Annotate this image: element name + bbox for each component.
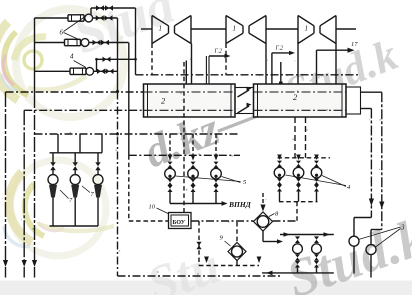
- svg-text:ВПНД: ВПНД: [228, 200, 252, 209]
- leader 7a: [60, 190, 69, 199]
- wire drain valve drop: [198, 221, 200, 266]
- drum D2 waterline lower: [254, 109, 347, 111]
- valve heater5-3 d: [214, 185, 219, 192]
- ejector E3: [94, 185, 102, 198]
- wire heater5-3 riser: [215, 134, 217, 157]
- arrow G2-2: [289, 51, 295, 55]
- wire drop leg 1 end: [5, 267, 7, 278]
- wire extraction G2-2 drop: [271, 53, 273, 97]
- wire pump3 top: [97, 153, 99, 163]
- wire heater5-2 riser: [192, 134, 194, 157]
- leader 4b1: [286, 175, 347, 186]
- wire heater5 bottom manifold: [170, 203, 219, 205]
- wire steam header dashed: [136, 74, 361, 76]
- wire extraction G2-1 drop: [205, 56, 207, 100]
- wire pump2 drop: [74, 198, 76, 227]
- wire steam stub left: [141, 28, 152, 30]
- wire BOU in dashed: [129, 220, 169, 222]
- wire to pump P3a: [353, 218, 355, 237]
- valve top-a: [96, 5, 104, 10]
- leader 10: [157, 208, 169, 214]
- wire row2 from tank: [35, 42, 65, 44]
- valve brh1 b: [295, 261, 300, 268]
- pump P6a: [85, 14, 93, 22]
- node header cross: [116, 133, 119, 136]
- heater H4-3: [311, 167, 322, 178]
- wire extraction G2-1 stub: [209, 55, 227, 57]
- arrow VPND: [219, 203, 225, 205]
- valve top-b: [105, 5, 113, 10]
- node sparger 2: [270, 94, 274, 99]
- ejector E2: [71, 185, 79, 198]
- wire T3 right leg: [335, 44, 337, 85]
- wire BOU out dashed: [191, 220, 254, 222]
- valve row3-b: [106, 69, 114, 74]
- wire pump2 mid: [74, 170, 76, 175]
- wire C8 feed: [262, 193, 264, 206]
- wire pump2 top: [74, 153, 76, 163]
- valve heater4-1 b: [277, 178, 282, 185]
- wire extraction 17: [317, 49, 352, 51]
- turbine T3: [298, 16, 336, 44]
- valve bypass: [103, 57, 111, 62]
- leader 5a: [176, 176, 241, 182]
- valve brh1 top: [295, 236, 300, 243]
- wire C8 drain out: [263, 241, 279, 243]
- ejector E1: [49, 185, 57, 198]
- wire drop leg 2: [23, 110, 25, 260]
- node H4-1 drain: [278, 174, 281, 177]
- wire br top line: [280, 234, 334, 236]
- valve heater4-1 c: [277, 185, 282, 192]
- wire row1: [92, 17, 117, 19]
- arrow br top1: [284, 232, 291, 237]
- node top corner: [134, 58, 136, 60]
- wire heater4-3 drop: [316, 191, 318, 201]
- wire condensate line 1: [6, 91, 144, 93]
- arrow downcomer outer: [379, 202, 384, 210]
- wire downcomer outer elbow: [371, 229, 382, 231]
- drum D1 shell: [144, 84, 236, 117]
- valve heater5-2 d: [191, 185, 196, 192]
- wire pump3 drop: [97, 198, 99, 227]
- wire downcomer outer top: [361, 91, 382, 93]
- node H4-2 drain: [297, 174, 300, 177]
- wire condensate line 2: [24, 109, 143, 111]
- arrow heater4-1 in: [277, 155, 282, 161]
- pump P7-2: [70, 175, 80, 185]
- svg-text:3: 3: [400, 224, 405, 232]
- leader 6b: [64, 33, 82, 41]
- drum D2 left cap: [257, 84, 259, 117]
- drum D2 shell: [254, 84, 347, 117]
- wire br bottom line: [262, 272, 334, 274]
- wire P3b out: [370, 255, 372, 278]
- valve heater5-2 b: [191, 162, 196, 168]
- valve brh2 top: [314, 236, 319, 243]
- wire extraction G2-2 stub: [272, 52, 292, 54]
- svg-text:Г.2: Г.2: [214, 49, 222, 55]
- wire downcomer inner top: [361, 108, 372, 110]
- svg-text:БОУ: БОУ: [173, 220, 186, 226]
- arrow heater5-3 in: [214, 155, 219, 161]
- arrow G2-1: [225, 54, 231, 58]
- leader 7b: [82, 186, 90, 193]
- wire heater4-2 drop: [298, 191, 300, 201]
- wire heater header: [129, 154, 240, 156]
- valve heater4-2 c: [296, 185, 301, 192]
- wire up to heater4: [296, 202, 298, 221]
- wire row3 riser: [96, 59, 98, 71]
- arrow heater5-1 in: [168, 155, 173, 161]
- arrow drain bottom: [204, 257, 209, 264]
- wire small drop: [280, 62, 282, 84]
- pump P6b: [81, 39, 89, 47]
- pump motor M2: [65, 39, 81, 45]
- valve pump1: [50, 162, 55, 170]
- arrow heater4-2 in: [296, 155, 301, 161]
- wire to pump P3b: [370, 230, 372, 245]
- wire bottom return header: [118, 275, 282, 277]
- wire heater4-1 drop: [279, 191, 281, 201]
- valve row2-a: [93, 40, 101, 45]
- wire heater4 top dashed: [278, 157, 331, 159]
- leader 9: [225, 241, 231, 246]
- heater BR1: [293, 244, 303, 254]
- drum D2 right cap: [341, 84, 343, 117]
- drum D1 waterline upper: [144, 91, 236, 93]
- wire bypass header: [97, 58, 136, 60]
- svg-text:1: 1: [159, 25, 163, 33]
- leader 3a: [359, 227, 401, 240]
- watermark stamp bottom-left: [4, 160, 114, 256]
- wire pump3 mid: [97, 170, 99, 175]
- cooler C8: [254, 212, 273, 231]
- leader 5b: [222, 177, 241, 183]
- wire C9 drain: [236, 261, 238, 266]
- wire pump1 drop: [52, 198, 54, 227]
- arrow connector lower: [238, 106, 250, 113]
- leader 6a: [64, 17, 85, 32]
- valve heater4-1 a: [277, 161, 282, 167]
- wire main vertical A: [117, 18, 119, 92]
- wire riser r2: [79, 134, 81, 153]
- cooler C9: [228, 243, 246, 261]
- pump motor M1: [68, 15, 84, 21]
- node sparger 3: [279, 82, 283, 86]
- wire T2 right leg: [265, 44, 267, 85]
- valve heater5-2 c: [191, 179, 196, 186]
- wire brh1 drop: [297, 268, 299, 273]
- valve heater4-3 b: [314, 178, 319, 185]
- arrow br top2: [324, 232, 331, 237]
- valve drain: [196, 242, 201, 250]
- leader 3b: [376, 229, 401, 248]
- wire top header: [91, 7, 136, 9]
- drum connector shell: [235, 88, 254, 114]
- svg-text:4: 4: [70, 53, 74, 61]
- wire C8 drain: [262, 231, 264, 242]
- heater H4-2: [293, 167, 304, 178]
- wire row3 from tank: [35, 70, 71, 72]
- heater H5-1: [165, 168, 176, 179]
- svg-text:10: 10: [149, 204, 156, 211]
- arrow heater5-2 in: [191, 155, 196, 161]
- wire drop leg 2 end: [23, 267, 25, 278]
- node H4-3 drain: [315, 174, 318, 177]
- wire T3 left leg: [297, 42, 299, 84]
- wire main vertical A lower: [117, 92, 119, 277]
- arrow drop3: [32, 260, 37, 267]
- BOU box: [169, 213, 192, 229]
- wire downcomer outer: [381, 92, 383, 229]
- svg-text:Г.2: Г.2: [275, 46, 283, 52]
- wire brh2 drop: [316, 268, 318, 273]
- wire T2-T3 link: [266, 28, 298, 30]
- wire vertical B: [128, 43, 130, 156]
- wire heater5-2 drop: [192, 192, 194, 204]
- wire pump1 mid: [52, 170, 54, 175]
- wire T1 left leg: [151, 44, 153, 75]
- wire downcomer inner elbow: [354, 217, 371, 219]
- wire pump1 top: [52, 153, 54, 163]
- scanner grey band at page bottom: [0, 281, 412, 295]
- turbine T2: [226, 16, 266, 44]
- arrow drop1: [3, 260, 8, 267]
- arrow 17: [348, 48, 355, 53]
- heater H5-3: [211, 168, 222, 179]
- wire T3 out stub: [336, 28, 356, 30]
- leader 4b2: [322, 176, 346, 187]
- svg-text:17: 17: [351, 41, 358, 48]
- valve heater5-1 d: [168, 185, 173, 192]
- drum D2 outlet hood: [346, 87, 361, 114]
- arrow downcomer inner: [369, 199, 374, 207]
- arrow heater4-3 in: [314, 155, 319, 161]
- node H5-2 drain: [192, 175, 195, 178]
- svg-text:1: 1: [305, 25, 309, 33]
- wire row1 from tank: [35, 17, 69, 19]
- node H5-1 drain: [169, 175, 172, 178]
- valve row1-a: [96, 15, 104, 20]
- valve brh1 a: [295, 254, 300, 261]
- wire drop leg 3 end: [34, 267, 36, 278]
- wire drain bottom dashed: [199, 265, 259, 267]
- pump P3b: [366, 245, 376, 255]
- valve heater4-2 a: [296, 161, 301, 167]
- drum D1 waterline lower: [144, 109, 236, 111]
- wire riser r3: [101, 134, 103, 153]
- valve heater5-1 b: [168, 162, 173, 168]
- wire drum drop a: [294, 117, 296, 158]
- leader 8: [269, 214, 275, 217]
- arrow C9 out: [257, 257, 262, 264]
- valve heater5-3 c: [214, 179, 219, 186]
- arrow connector upper: [238, 90, 250, 97]
- valve row1-b: [105, 15, 113, 20]
- arrow drop2: [22, 260, 27, 267]
- pump P7-3: [93, 175, 103, 185]
- valve pump3: [95, 162, 100, 170]
- pump motor M3: [70, 68, 86, 74]
- node H5-3 drain: [215, 175, 218, 178]
- valve brh2 a: [314, 254, 319, 261]
- node A: [116, 90, 119, 93]
- cooler C9 feed dashed: [236, 222, 238, 243]
- wire T2 left leg: [225, 44, 227, 75]
- pump P4: [86, 67, 94, 75]
- wire extraction 17 riser: [316, 50, 318, 84]
- wire heater5-1 riser: [169, 134, 171, 157]
- wire after C8 dashed: [273, 220, 298, 222]
- wire heater5-3 drop: [215, 192, 217, 204]
- wire riser to top header: [90, 8, 92, 14]
- wire row3: [94, 70, 118, 72]
- wire vessel1 inlet pipe: [185, 61, 187, 85]
- wire heater5-1 drop: [169, 192, 171, 204]
- wire P3a out: [353, 246, 355, 273]
- pump P7-1: [48, 175, 58, 185]
- valve heater5-3 b: [214, 162, 219, 168]
- valve pump2: [73, 162, 78, 170]
- valve heater4-3 c: [314, 185, 319, 192]
- valve row2-b: [101, 40, 109, 45]
- leader 4a: [74, 61, 87, 68]
- wire drop leg 3: [34, 93, 36, 260]
- wire T1 right leg: [191, 44, 193, 85]
- wire pump manifold: [50, 152, 103, 154]
- heater H4-1: [274, 167, 285, 178]
- arrow C8 drain: [277, 239, 283, 244]
- valve heater4-3 a: [314, 161, 319, 167]
- watermark stamp top-left: [0, 9, 124, 117]
- valve row3-a: [97, 69, 105, 74]
- svg-text:1: 1: [233, 25, 237, 33]
- heater H5-2: [188, 168, 199, 179]
- wire downcomer inner: [370, 109, 372, 218]
- wire header y134: [35, 133, 241, 135]
- arrow br bottom: [266, 271, 273, 276]
- wire heater4 bottom dashed: [279, 201, 318, 203]
- arrow C8 feed: [260, 205, 265, 212]
- node sparger 1: [205, 96, 210, 101]
- pump P3a: [349, 236, 359, 246]
- valve heater5-1 c: [168, 179, 173, 186]
- turbine T1: [152, 16, 191, 44]
- node bypass join: [95, 58, 97, 60]
- valve heater4-2 b: [296, 178, 301, 185]
- wire pump bottom manifold: [50, 225, 99, 227]
- drum D2 waterline upper: [254, 91, 347, 93]
- wire vertical C: [135, 8, 137, 75]
- valve brh2 b: [314, 261, 319, 268]
- tank wall left: [34, 18, 36, 93]
- wire drum drop b: [305, 117, 307, 158]
- wire drop leg 1: [5, 92, 7, 260]
- heater BR2: [312, 244, 322, 254]
- wire riser r1: [57, 134, 59, 153]
- drum D1 right cap: [230, 84, 232, 117]
- wire row2: [89, 42, 129, 44]
- wire T1-T2 link: [191, 28, 226, 30]
- wire drain dashed x184: [183, 62, 185, 215]
- wire vertical B dashed: [128, 155, 130, 221]
- svg-text:6: 6: [60, 29, 64, 37]
- drum D1 left cap: [147, 84, 149, 117]
